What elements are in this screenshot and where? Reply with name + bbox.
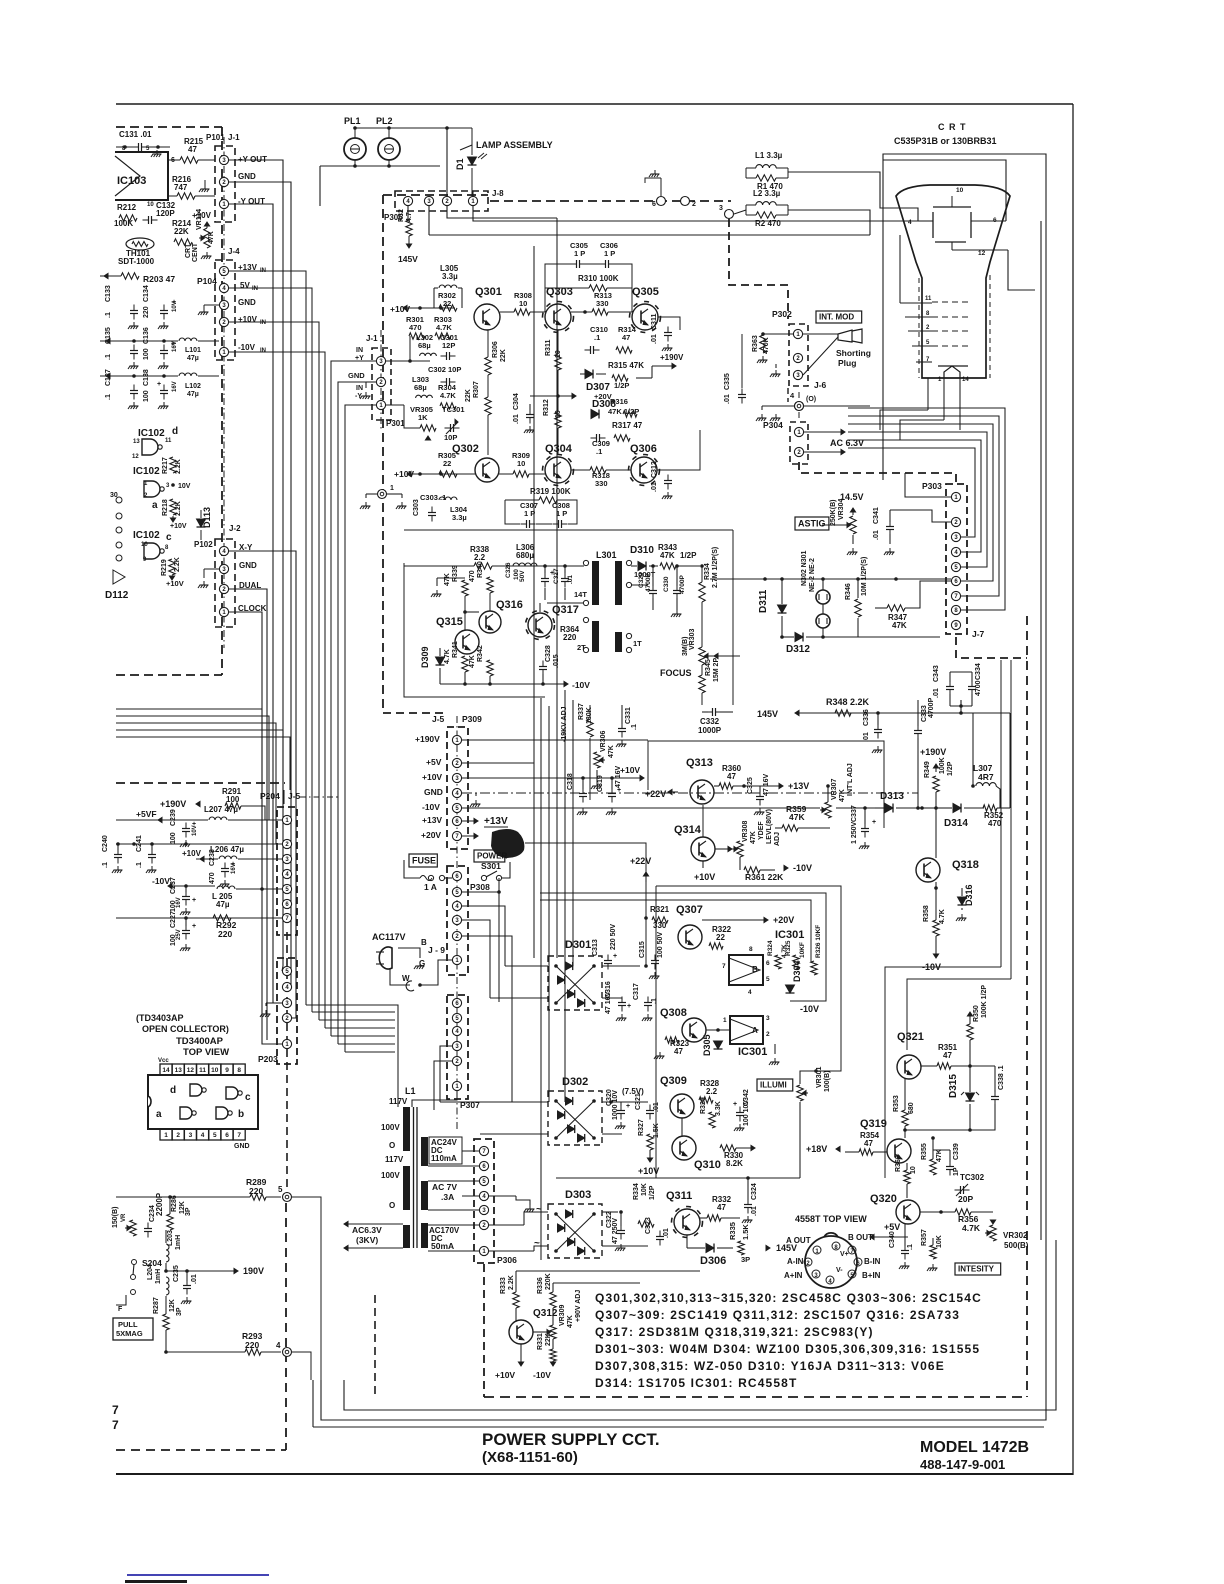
svg-text:2: 2 — [692, 201, 696, 208]
transformer L1 primary winding bars — [403, 1107, 410, 1151]
svg-text:+5V: +5V — [426, 757, 442, 767]
label +13V out arrow — [474, 818, 478, 823]
svg-text:C331: C331 — [625, 707, 632, 724]
svg-text:R286: R286 — [171, 1195, 178, 1212]
svg-text:+5V: +5V — [884, 1222, 900, 1232]
capacitor C327 .01 — [561, 578, 569, 580]
svg-text:+10V: +10V — [620, 765, 640, 775]
wire lamp feeds — [428, 206, 430, 235]
resistor R2 470 — [756, 212, 776, 218]
svg-text:7: 7 — [722, 963, 726, 970]
wire VR306 gnd — [596, 770, 598, 782]
label 190V arrow — [234, 1268, 238, 1273]
svg-text:4R7: 4R7 — [978, 772, 994, 782]
resistor R349 100K 1/2P vertical — [933, 776, 939, 792]
svg-text:.1: .1 — [594, 333, 600, 342]
wire -10V feed row1 — [100, 340, 178, 342]
inductor L304 3.3u — [439, 497, 457, 500]
svg-text:C319: C319 — [597, 775, 604, 792]
wire row pin2 — [116, 843, 282, 845]
svg-text:D316: D316 — [964, 884, 974, 906]
svg-text:V+: V+ — [840, 1251, 849, 1258]
potentiometer VR308 47K YDEF LEVL ADJ — [737, 841, 743, 857]
svg-text:330: 330 — [653, 921, 667, 930]
svg-text:+22V: +22V — [630, 856, 651, 866]
connector J-4 pin 1 -10VIN — [219, 347, 228, 356]
dashed block left board right — [221, 127, 223, 675]
svg-text:P304: P304 — [763, 420, 783, 430]
svg-text:L204: L204 — [147, 1264, 154, 1280]
svg-text:C303: C303 — [413, 499, 420, 516]
resistor R358 4.7K vertical — [933, 920, 939, 936]
capacitor C338 .1 — [991, 1096, 999, 1098]
svg-text:11: 11 — [925, 296, 932, 302]
svg-text:47K: 47K — [660, 551, 675, 560]
svg-text:+10V: +10V — [638, 1166, 659, 1176]
connector P204 pin 2 — [282, 839, 291, 848]
label -10V osc — [564, 681, 568, 686]
svg-text:GND: GND — [238, 298, 256, 307]
inductor L101 47u — [179, 338, 197, 341]
junction circle 1 gnd — [378, 490, 387, 499]
svg-text:R316: R316 — [610, 397, 628, 406]
svg-text:330: 330 — [596, 299, 609, 308]
wire row pin7 long — [116, 917, 282, 919]
svg-text:470: 470 — [409, 323, 422, 332]
wire pin4 right — [804, 405, 870, 407]
svg-text:16V: 16V — [172, 341, 178, 352]
svg-text:47µ: 47µ — [187, 391, 199, 398]
svg-text:1/2P: 1/2P — [947, 761, 954, 776]
svg-text:3P: 3P — [741, 1255, 750, 1264]
svg-text:C333: C333 — [921, 705, 928, 722]
svg-text:+22V: +22V — [645, 789, 666, 799]
wire +10V rail — [403, 307, 455, 309]
capacitor C315 100 50V — [651, 960, 659, 962]
resistor R324 4.7K vertical — [775, 955, 781, 969]
svg-text:VR303: VR303 — [689, 628, 696, 650]
dashed block left board top — [116, 126, 222, 128]
svg-text:R357: R357 — [921, 1229, 928, 1246]
wire bundle into P204 area — [261, 790, 263, 887]
label PULL 5XMAG boxed — [113, 1318, 153, 1340]
svg-text:J-7: J-7 — [972, 629, 985, 639]
svg-text:R312: R312 — [543, 399, 550, 416]
svg-text:1 P: 1 P — [574, 249, 585, 258]
connector P306 box — [474, 1139, 494, 1263]
svg-text:3: 3 — [166, 483, 170, 489]
wire R1 to crt — [788, 172, 918, 221]
svg-text:D305: D305 — [702, 1034, 712, 1056]
svg-text:R326 10KF: R326 10KF — [815, 925, 822, 958]
svg-text:SDT-1000: SDT-1000 — [118, 257, 155, 266]
svg-text:J-8: J-8 — [492, 189, 504, 198]
connector P203 pin 5 — [282, 966, 291, 975]
svg-text:4: 4 — [201, 1132, 205, 1139]
svg-text:a: a — [152, 500, 158, 511]
connector J-4 pin 5 +13VIN — [219, 266, 228, 275]
svg-text:B-IN: B-IN — [864, 1257, 881, 1266]
svg-text:D314: 1S1705 IC301: RC4: D314: 1S1705 IC301: RC4558T — [595, 1376, 797, 1390]
ground J-2 pin3 — [203, 581, 205, 585]
wire J1R pin1 to amp lower — [386, 404, 404, 406]
wire intensity block box — [885, 967, 1001, 1178]
svg-text:.01: .01 — [513, 414, 520, 424]
svg-text:+10V: +10V — [422, 772, 442, 782]
4558T pin 5 — [848, 1270, 856, 1278]
svg-text:488-147-9-001: 488-147-9-001 — [920, 1457, 1005, 1472]
svg-text:100(B): 100(B) — [824, 1071, 831, 1092]
connector P302 pin 1 — [793, 329, 802, 338]
diode D113 — [197, 519, 206, 527]
wire Q311 emitter to D306 — [686, 1235, 688, 1248]
neon lamp N301 — [816, 590, 830, 604]
svg-text:47: 47 — [864, 1139, 873, 1148]
svg-text:22K: 22K — [465, 389, 472, 402]
capacitor C335 .01 — [738, 394, 746, 396]
svg-text:C326: C326 — [505, 562, 512, 578]
resistor R286 12K 3P — [167, 1214, 173, 1230]
capacitor C336 .01 — [874, 729, 882, 731]
dashed power block top edge — [383, 194, 488, 196]
svg-text:J-5: J-5 — [432, 714, 445, 724]
svg-text:2.2K: 2.2K — [508, 1275, 515, 1290]
connector P307 pin 2 — [452, 1056, 461, 1065]
svg-text:D311: D311 — [758, 589, 769, 613]
svg-text:11: 11 — [199, 1067, 206, 1074]
connector P303 pin 1 — [951, 492, 960, 501]
svg-text:D310: D310 — [630, 545, 654, 556]
wire D312 row right — [823, 636, 940, 638]
svg-text:1.5K: 1.5K — [653, 1123, 660, 1138]
svg-text:R2 470: R2 470 — [755, 219, 781, 228]
capacitor C321 .01 — [646, 1110, 654, 1112]
label +20V out arrow — [474, 833, 478, 838]
connector J-2 pin 4 X-Y — [219, 546, 228, 555]
label FUSE boxed — [409, 854, 437, 867]
wire CLOCK run — [229, 612, 282, 1044]
label -10V Q314 row — [784, 865, 788, 870]
svg-text:.1: .1 — [105, 354, 112, 360]
resistor R329 3.3K vertical — [709, 1112, 715, 1128]
wire secondary to P306 — [462, 1150, 479, 1152]
label +13V right arrow — [779, 783, 783, 788]
dashed block lower-left bottom — [116, 1449, 286, 1451]
connector J-1R pin 1 — [376, 400, 385, 409]
svg-text:145V: 145V — [398, 254, 418, 264]
capacitor C328 .015 — [539, 666, 547, 668]
connector P303 pin 7 — [951, 591, 960, 600]
svg-text:4: 4 — [908, 219, 912, 226]
svg-text:C337: C337 — [851, 805, 858, 822]
svg-text:12K: 12K — [169, 1299, 176, 1312]
svg-text:A-IN: A-IN — [787, 1257, 804, 1266]
connector P203 pin 2 — [282, 1013, 291, 1022]
label +10V Q312 — [518, 1362, 523, 1366]
connector P204 pin 3 — [282, 854, 291, 863]
ground P306 pin4 region — [529, 1205, 531, 1209]
svg-text:470: 470 — [209, 872, 216, 884]
svg-text:9: 9 — [225, 1067, 229, 1074]
svg-text:1: 1 — [723, 1017, 727, 1024]
svg-text:+10V: +10V — [238, 315, 258, 324]
connector P303 pin 9 — [951, 620, 960, 629]
svg-text:22K: 22K — [545, 1333, 552, 1346]
dashed J-8 to plug elbow — [729, 219, 788, 319]
connector P308 pin 5 — [452, 887, 461, 896]
svg-text:.01: .01 — [651, 334, 658, 344]
svg-text:GND: GND — [239, 561, 257, 570]
svg-text:5XMAG: 5XMAG — [116, 1329, 143, 1338]
svg-text:.1: .1 — [596, 447, 602, 456]
svg-text:C315: C315 — [639, 941, 646, 958]
svg-text:7: 7 — [112, 1418, 119, 1432]
svg-text:2: 2 — [176, 1132, 180, 1139]
dashed stub near L1 bottom — [374, 1295, 376, 1397]
svg-text:2.2: 2.2 — [706, 1087, 718, 1096]
svg-text:C324: C324 — [751, 1183, 758, 1200]
svg-text:PULL: PULL — [118, 1320, 138, 1329]
svg-text:+: + — [192, 897, 196, 904]
connector J-8 pin 3 — [424, 196, 433, 205]
svg-text:1000P: 1000P — [698, 726, 722, 735]
wire bridge D303 feeds — [489, 1224, 524, 1226]
svg-text:FOCUS: FOCUS — [660, 668, 692, 678]
svg-text:1P: 1P — [953, 1167, 960, 1176]
svg-text:C138: C138 — [143, 369, 150, 386]
svg-text:L301: L301 — [596, 550, 617, 560]
svg-text:Q304: Q304 — [545, 443, 573, 455]
svg-text:4700P: 4700P — [928, 697, 935, 718]
svg-text:2.7M 1/2P(S): 2.7M 1/2P(S) — [712, 547, 719, 588]
resistor R345 15M 2P — [699, 675, 705, 693]
resistor R352 470 — [983, 805, 997, 811]
svg-text:C241: C241 — [136, 835, 143, 852]
svg-text:AC 7V: AC 7V — [432, 1182, 457, 1192]
svg-text:100K 1/2P: 100K 1/2P — [981, 985, 988, 1018]
svg-text:IC103: IC103 — [117, 175, 146, 187]
svg-text:R340: R340 — [477, 561, 484, 578]
switch S301 — [481, 875, 486, 880]
svg-text:4: 4 — [790, 391, 795, 400]
svg-text:+190V: +190V — [660, 353, 684, 362]
svg-text:R349: R349 — [924, 761, 931, 778]
svg-text:14: 14 — [962, 377, 969, 383]
connector J-2 pin 2 DUAL — [219, 584, 228, 593]
svg-text:330: 330 — [595, 479, 608, 488]
svg-text:B: B — [421, 938, 427, 947]
resistor R32 4.7 — [406, 220, 412, 236]
wire J1R pin3 to amp — [386, 360, 410, 362]
svg-text:100 10V: 100 10V — [743, 1100, 750, 1126]
capacitor C318 — [579, 793, 587, 795]
4558T pin 4 — [826, 1276, 834, 1284]
svg-text:150(B): 150(B) — [112, 1207, 119, 1228]
svg-text:R325: R325 — [785, 940, 792, 956]
svg-text:Q318: Q318 — [952, 859, 979, 871]
resistor R325 10KF vertical — [793, 955, 799, 969]
potentiometer VR307 47K INTL ADJ — [825, 802, 831, 818]
label +10V at row 778 — [640, 775, 644, 780]
diode D1 — [468, 157, 477, 165]
svg-text:14: 14 — [162, 1067, 170, 1074]
svg-text:12: 12 — [187, 1067, 195, 1074]
svg-text:C341: C341 — [873, 507, 880, 524]
resistor R334b 10K 1/2P — [638, 1221, 654, 1227]
wire osc emitter bus — [440, 683, 543, 685]
svg-text:47µ: 47µ — [187, 355, 199, 362]
wire Q309 emitter chain — [681, 1118, 683, 1136]
svg-text:2.2: 2.2 — [474, 553, 486, 562]
capacitor C324 .01 — [744, 1204, 752, 1206]
wire plug to P308 — [398, 948, 420, 958]
svg-text:1: 1 — [144, 481, 148, 487]
wire from junction4 — [292, 1352, 311, 1380]
svg-text:47: 47 — [674, 1047, 683, 1056]
connector P204 box — [277, 807, 297, 935]
ground R339 top — [436, 590, 438, 594]
svg-text:B: B — [752, 965, 758, 974]
svg-text:4.7K: 4.7K — [939, 909, 946, 924]
svg-text:20P: 20P — [958, 1194, 973, 1204]
wire J-1 right centerline — [380, 330, 382, 430]
wire central bus horiz stubs — [462, 739, 648, 741]
svg-text:1: 1 — [390, 485, 394, 492]
wire X-Y run — [229, 551, 296, 1018]
wire page right border — [1072, 104, 1074, 1475]
svg-text:10: 10 — [211, 1067, 219, 1074]
diode D305 — [714, 1041, 723, 1049]
resistor R350 100K 1/2P vertical — [967, 1024, 973, 1040]
resistor R306 22K vertical — [485, 357, 491, 375]
svg-text:15M 2P: 15M 2P — [713, 658, 720, 682]
svg-text:10V: 10V — [192, 825, 198, 836]
svg-text:R324: R324 — [767, 940, 774, 956]
potentiometer VR309 47K +90V ADJ — [550, 1325, 556, 1339]
wire J-1-J-4 to bus links — [229, 271, 306, 390]
svg-text:3.3µ: 3.3µ — [442, 272, 458, 281]
svg-text:.01: .01 — [873, 530, 880, 540]
wire return line 2 — [344, 1240, 1056, 1410]
svg-text:.1: .1 — [631, 724, 638, 730]
svg-text:R363: R363 — [752, 335, 759, 352]
circle junction 0 above P304 — [795, 402, 804, 411]
potentiometer VR 150B — [130, 1220, 136, 1236]
svg-text:47K: 47K — [839, 789, 846, 802]
label AC 6.3V — [841, 429, 845, 434]
wire amp outputs right — [658, 317, 680, 330]
connector P308 pin 2 — [452, 931, 461, 940]
connector J-8 pin 4 — [403, 196, 412, 205]
svg-text:47K: 47K — [208, 231, 215, 244]
junction circle 3 — [725, 210, 734, 219]
svg-text:47: 47 — [727, 772, 736, 781]
wire oscillator box — [404, 563, 545, 697]
svg-text:1 P: 1 P — [604, 249, 615, 258]
svg-text:10V: 10V — [178, 483, 191, 490]
svg-text:50V: 50V — [519, 570, 526, 582]
svg-text:c: c — [166, 532, 172, 543]
potentiometer VR304 250K(B) — [850, 516, 856, 534]
ground R363 — [762, 356, 764, 360]
svg-text:IN: IN — [252, 286, 258, 292]
svg-text:C311: C311 — [651, 314, 658, 330]
diode D112 — [113, 570, 125, 584]
svg-text:P102: P102 — [194, 540, 213, 549]
dashed power block left edge — [382, 195, 384, 713]
4558T pin 2 — [804, 1258, 812, 1266]
svg-text:.1: .1 — [907, 1244, 914, 1250]
svg-text:C312: C312 — [651, 461, 658, 478]
svg-text:220: 220 — [563, 633, 577, 642]
svg-text:C240: C240 — [102, 835, 109, 852]
4558T pin 8 — [832, 1242, 840, 1250]
svg-text:+: + — [627, 1003, 631, 1010]
connector P309 pin 3 +10V — [452, 773, 461, 782]
diode D315 zener — [966, 1093, 975, 1101]
capacitor C309 .1 — [596, 434, 598, 442]
dashed CRT feed elbow — [799, 462, 956, 482]
svg-text:.01: .01 — [724, 394, 731, 404]
dashed P302 to P304 link — [787, 388, 789, 402]
svg-text:470: 470 — [469, 570, 476, 582]
svg-text:-10V: -10V — [422, 802, 440, 812]
svg-text:C340: C340 — [889, 1231, 896, 1248]
diode D316 — [958, 897, 967, 905]
svg-text:D301: D301 — [565, 939, 591, 951]
wire feed row2 — [100, 375, 178, 377]
svg-text:1T: 1T — [633, 639, 642, 648]
svg-text:10K: 10K — [641, 1183, 648, 1196]
svg-text:R287: R287 — [153, 1297, 160, 1314]
connector P303 pin 4 — [951, 547, 960, 556]
svg-text:+190V: +190V — [920, 747, 946, 757]
arrow +20V mid — [530, 395, 558, 397]
4558T pin 6 — [854, 1258, 862, 1266]
svg-text:IC102: IC102 — [133, 530, 160, 541]
connector P309 pin 5 -10V — [452, 803, 461, 812]
resistor R342 47K vertical — [487, 660, 493, 676]
svg-text:4.7K: 4.7K — [440, 391, 456, 400]
svg-text:16V: 16V — [172, 381, 178, 392]
svg-text:4700P: 4700P — [645, 573, 652, 592]
svg-text:2: 2 — [926, 325, 930, 331]
wire P203 dash centerline — [286, 932, 288, 1197]
svg-text:D315: D315 — [948, 1074, 959, 1098]
ground near C131 — [156, 150, 158, 154]
svg-text:Shorting: Shorting — [836, 348, 871, 358]
svg-text:D1: D1 — [455, 158, 465, 170]
svg-text:FUSE: FUSE — [412, 856, 436, 866]
label -10V Q318 — [933, 954, 938, 958]
resistor R218 2.2K — [170, 499, 176, 515]
connector P309 pin 1 +190V — [452, 735, 461, 744]
connector P308 box — [447, 866, 468, 975]
svg-text:R350: R350 — [973, 1005, 980, 1022]
svg-text:INT'L ADJ: INT'L ADJ — [847, 763, 854, 796]
connector P306 pin 4 — [479, 1191, 488, 1200]
svg-text:1mH: 1mH — [155, 1269, 162, 1284]
connector P307 pin 6 — [452, 998, 461, 1007]
resistor R347 47K — [887, 605, 905, 611]
svg-text:GND: GND — [348, 371, 365, 380]
capacitor C304 .01 — [526, 414, 534, 416]
svg-text:Q308: Q308 — [660, 1007, 687, 1019]
ic TD3400AP top pins — [160, 1064, 172, 1075]
connector P309 pin 6 +13V — [452, 816, 461, 825]
svg-text:+10V: +10V — [495, 1370, 515, 1380]
ground P203 pin3 — [265, 1010, 267, 1014]
